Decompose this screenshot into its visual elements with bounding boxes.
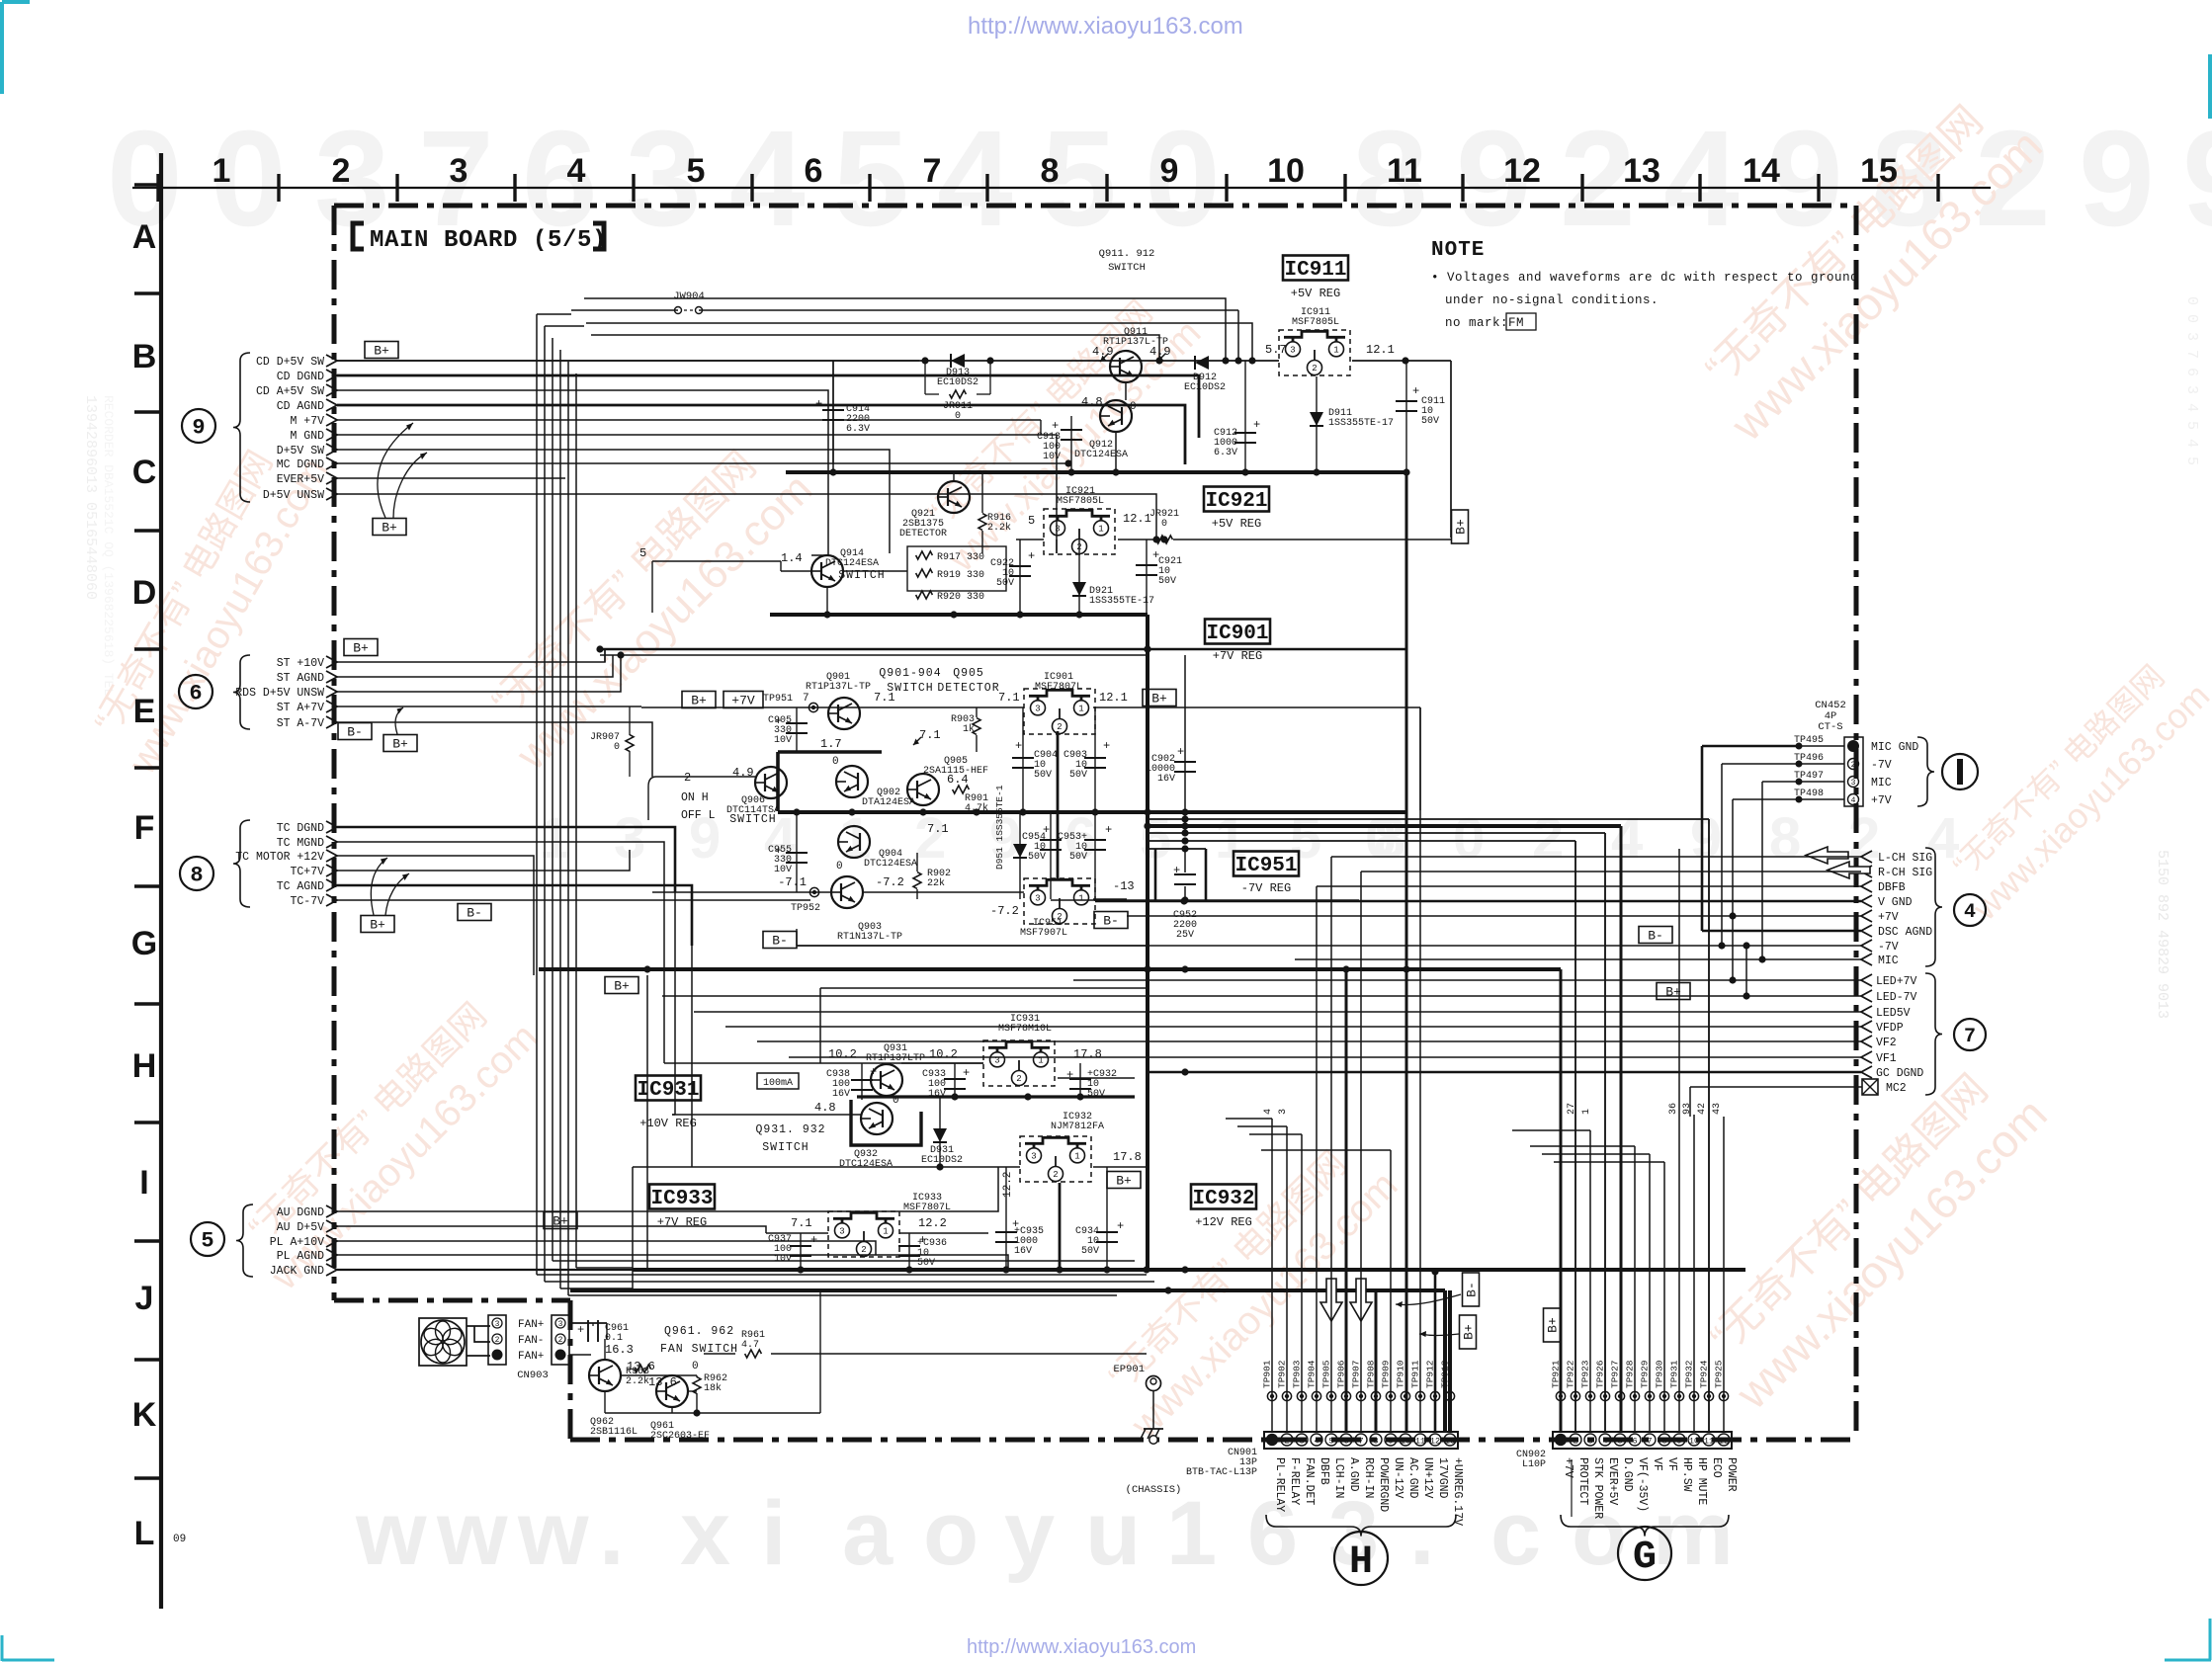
svg-text:SWITCH: SWITCH [1108, 262, 1146, 274]
svg-text:+: + [870, 1065, 877, 1079]
svg-text:DBFB: DBFB [1878, 881, 1906, 894]
svg-text:3: 3 [558, 1320, 563, 1329]
TP952 [809, 887, 818, 896]
svg-text:3: 3 [1035, 894, 1040, 904]
group9 wire M GND [337, 435, 1057, 553]
svg-text:2SB1116L: 2SB1116L [590, 1427, 638, 1438]
thick bottom bus y981 [539, 967, 1561, 971]
svg-text:J: J [135, 1280, 154, 1317]
open circle crossing border [1149, 1436, 1157, 1444]
thick vertical x1161 main [1146, 615, 1149, 1270]
svg-text:0: 0 [1130, 401, 1137, 413]
svg-text:16V: 16V [832, 1089, 850, 1100]
svg-text:2: 2 [1284, 1437, 1289, 1447]
svg-text:TC AGND: TC AGND [277, 880, 324, 893]
wire IC911 out [1352, 360, 1451, 362]
B- box group6 [338, 723, 372, 740]
svg-text:5: 5 [1328, 1437, 1333, 1447]
svg-text:u: u [1085, 1483, 1141, 1584]
svg-text:1.7: 1.7 [820, 737, 842, 751]
svg-text:50V: 50V [1028, 852, 1046, 863]
group9 wire D+5V UNSW [337, 494, 1156, 540]
svg-text:TP921: TP921 [1551, 1360, 1562, 1388]
thick switch frame Q932 [851, 1100, 921, 1145]
wire into IC931 pin3 [901, 1062, 983, 1064]
watermark pink rotated instances [77, 426, 337, 783]
svg-text:IC932: IC932 [1192, 1188, 1254, 1210]
svg-text:3: 3 [1055, 525, 1060, 535]
svg-text:STK POWER: STK POWER [1591, 1457, 1604, 1519]
PROTECT overline [1571, 1459, 1573, 1517]
svg-text:E: E [133, 693, 156, 730]
svg-text:JACK GND: JACK GND [270, 1265, 324, 1278]
svg-text:SWITCH: SWITCH [729, 813, 776, 826]
capacitor C938 [861, 1063, 863, 1100]
svg-text:6: 6 [189, 682, 202, 706]
svg-text:PROTECT: PROTECT [1576, 1457, 1589, 1505]
svg-text:5: 5 [687, 152, 706, 190]
svg-text:B-: B- [1648, 929, 1663, 944]
svg-text:2: 2 [1016, 1074, 1021, 1084]
capacitor C937 [800, 1233, 802, 1270]
svg-text:13.6: 13.6 [648, 1375, 677, 1389]
svg-text:10: 10 [1689, 1437, 1699, 1447]
svg-text:o: o [923, 1483, 978, 1584]
svg-text:12: 12 [1503, 152, 1541, 190]
svg-text:7.1: 7.1 [919, 728, 941, 742]
svg-text:10: 10 [1267, 152, 1305, 190]
B- box group8 [458, 904, 491, 921]
wire top bundle 3 [586, 323, 1252, 361]
transistor Q902 [836, 766, 868, 797]
svg-text:7: 7 [1964, 1026, 1976, 1048]
chassis ground symbol [1144, 1428, 1163, 1430]
svg-text:no mark:FM: no mark:FM [1445, 316, 1524, 330]
capacitor C961 [569, 1322, 607, 1324]
svg-text:2: 2 [558, 1336, 563, 1345]
capacitor C953 [1094, 812, 1096, 899]
transistor Q932 [861, 1103, 893, 1134]
svg-text:50V: 50V [1158, 576, 1176, 587]
svg-text:TP905: TP905 [1321, 1360, 1332, 1388]
+7V box mid [723, 692, 763, 708]
CN902 stub feeds [1512, 1129, 1590, 1131]
svg-text:2: 2 [1573, 1437, 1577, 1447]
schematic border top [334, 204, 1856, 208]
svg-text:+: + [1103, 739, 1110, 753]
svg-text:0: 0 [836, 861, 843, 873]
svg-text:Q961. 962: Q961. 962 [664, 1325, 734, 1338]
svg-text:w: w [436, 1483, 508, 1584]
svg-text:• Voltages and waveforms are d: • Voltages and waveforms are dc with res… [1431, 271, 1858, 285]
svg-text:+12V REG: +12V REG [1195, 1215, 1252, 1229]
svg-text:TP903: TP903 [1292, 1360, 1303, 1388]
svg-text:0: 0 [1161, 519, 1167, 530]
diode D931 [939, 1097, 941, 1167]
svg-text:B+: B+ [374, 344, 389, 359]
group9 wire CD AGND thick [337, 405, 1185, 464]
group7 long lines [1073, 979, 1861, 981]
svg-text:8: 8 [1373, 1437, 1378, 1447]
svg-text:MSF7805L: MSF7805L [1057, 496, 1104, 507]
svg-text:4: 4 [1964, 901, 1976, 924]
svg-text:L-CH SIG: L-CH SIG [1878, 852, 1932, 865]
svg-text:3: 3 [1278, 1109, 1289, 1115]
svg-text:0: 0 [614, 742, 620, 753]
svg-text:14: 14 [1743, 152, 1780, 190]
svg-text:0: 0 [1145, 103, 1221, 255]
svg-text:-7.2: -7.2 [876, 875, 904, 889]
svg-text:M GND: M GND [290, 430, 324, 443]
svg-text:D.GND: D.GND [1621, 1457, 1634, 1492]
CN452 corner wires [1702, 745, 1799, 748]
svg-text:+7V: +7V [1871, 794, 1892, 807]
capacitor C922 [1019, 540, 1021, 615]
svg-text:10V: 10V [1043, 452, 1061, 462]
resistor R961 [745, 1350, 762, 1358]
svg-text:4: 4 [1611, 806, 1643, 871]
regulator IC951 symbol [1024, 878, 1095, 924]
capacitor C913 [1070, 416, 1072, 472]
svg-text:B+: B+ [1454, 519, 1469, 535]
B+ box group6 [344, 639, 378, 656]
capacitor C903 [1094, 707, 1096, 812]
CN901 stub feeds [1226, 1118, 1272, 1120]
svg-text:B+: B+ [691, 694, 707, 708]
fan connector B [552, 1315, 569, 1365]
svg-text:6.3V: 6.3V [1214, 448, 1237, 458]
svg-text:TC MGND: TC MGND [277, 837, 324, 850]
fan leads [467, 1325, 490, 1327]
connector CN902 box [1553, 1432, 1732, 1449]
svg-text:12.1: 12.1 [1123, 512, 1151, 526]
svg-text:5150 892 49829 9013: 5150 892 49829 9013 [2154, 850, 2170, 1019]
svg-text:4: 4 [567, 152, 586, 190]
IC933 label box [649, 1185, 715, 1209]
svg-text:L: L [134, 1515, 155, 1552]
svg-text:9: 9 [1388, 1437, 1393, 1447]
svg-text:10.2: 10.2 [828, 1047, 857, 1061]
svg-text:+: + [1028, 549, 1035, 563]
svg-text:1: 1 [1333, 346, 1338, 356]
left ruler line [159, 153, 163, 1609]
capacitor C912 [1244, 361, 1246, 472]
group9 wire CD D+5V SW [337, 360, 919, 362]
MC2 crossed box [1862, 1079, 1878, 1095]
svg-text:F: F [134, 809, 155, 847]
svg-text:I: I [139, 1164, 148, 1202]
B+ box group5 [544, 1212, 577, 1229]
group9 wire EVER+5V [337, 477, 565, 479]
transistor Q961 [656, 1375, 688, 1407]
svg-text:RDS D+5V UNSW: RDS D+5V UNSW [235, 687, 324, 700]
hollow down arrows [1320, 1279, 1342, 1321]
capacitor C904 [1022, 707, 1024, 812]
svg-text:TP911: TP911 [1410, 1360, 1421, 1388]
svg-text:+7V: +7V [1878, 911, 1899, 924]
svg-text:PL-RELAY: PL-RELAY [1273, 1457, 1286, 1512]
svg-text:1: 1 [1581, 1109, 1592, 1115]
IC951 label box [1234, 852, 1299, 876]
svg-text:6: 6 [805, 152, 823, 190]
CN452 brace [1917, 737, 1934, 806]
group5 wires [337, 1167, 998, 1211]
svg-text:4: 4 [937, 103, 1013, 255]
svg-text:2: 2 [861, 1245, 866, 1255]
diode D913 [951, 354, 965, 368]
diode D951 vertical with rotated label [1019, 812, 1021, 899]
svg-text:MIC: MIC [1878, 955, 1899, 967]
svg-text:MAIN BOARD (5/5): MAIN BOARD (5/5) [370, 227, 607, 254]
B+ box bottom left of block [605, 977, 638, 994]
svg-text:CD DGND: CD DGND [277, 371, 324, 383]
svg-text:VF(-35V): VF(-35V) [1636, 1457, 1649, 1512]
vertical bundle bottoms [537, 1274, 1147, 1276]
CN901 pin verticals [1271, 1119, 1273, 1432]
svg-text:2SC2603-EF: 2SC2603-EF [650, 1431, 710, 1442]
wire IC921 output row [1016, 539, 1044, 540]
svg-text:H: H [1349, 1540, 1373, 1585]
group 7 labels [1861, 974, 1872, 986]
svg-text:2: 2 [1053, 1170, 1058, 1180]
svg-text:50V: 50V [1421, 416, 1439, 427]
svg-text:7: 7 [803, 693, 809, 705]
wire Q914 base [652, 560, 781, 562]
capacitor C934 [1106, 1167, 1108, 1270]
svg-text:4: 4 [1263, 1109, 1274, 1115]
B+ box on out rail [1143, 690, 1176, 706]
transistor Q912 [1100, 400, 1132, 432]
group9 wire CD DGND thick [337, 375, 1199, 438]
svg-text:1: 1 [1078, 705, 1083, 714]
svg-text:+: + [1015, 739, 1022, 753]
transistor Q906 [755, 767, 787, 798]
svg-text:TP924: TP924 [1699, 1360, 1710, 1388]
svg-text:EP901: EP901 [1113, 1364, 1145, 1375]
svg-text:1.4: 1.4 [781, 551, 803, 565]
hollow arrow R-CH [1828, 862, 1870, 878]
svg-text:AU D+5V: AU D+5V [277, 1221, 324, 1234]
svg-text:+: + [1105, 823, 1112, 837]
svg-text:36: 36 [1668, 1103, 1679, 1115]
wire y911 row [1051, 899, 1359, 901]
svg-text:0: 0 [832, 756, 839, 768]
B- box right [1639, 927, 1672, 944]
svg-text:43: 43 [1712, 1103, 1723, 1115]
svg-text:0: 0 [692, 1361, 699, 1372]
svg-text:2: 2 [1848, 806, 1880, 871]
svg-text:7.1: 7.1 [998, 691, 1020, 705]
svg-text:10V: 10V [774, 735, 792, 746]
svg-text:22k: 22k [927, 877, 945, 889]
100mA box [757, 1073, 799, 1089]
fan icon [419, 1318, 467, 1366]
svg-text:OFF L: OFF L [681, 809, 716, 822]
svg-text:+: + [810, 1233, 817, 1247]
svg-text:1: 1 [1098, 525, 1103, 535]
svg-text:D+5V SW: D+5V SW [277, 445, 324, 457]
IC932 out [1093, 1166, 1147, 1168]
svg-text:R-CH SIG: R-CH SIG [1878, 867, 1932, 879]
svg-text:NJM7812FA: NJM7812FA [1051, 1122, 1104, 1132]
circled 7 [1954, 1019, 1986, 1050]
resistor R963 [635, 1365, 651, 1372]
svg-text:3: 3 [495, 1320, 500, 1329]
schematic border bottom step [334, 1298, 570, 1303]
svg-text:FAN+: FAN+ [518, 1351, 544, 1363]
svg-text:RECORDER DBA15521C OQ (1396822: RECORDER DBA15521C OQ (13968225618) TEL [101, 395, 116, 696]
group9 wire D+5V SW [337, 450, 890, 481]
svg-text:50V: 50V [1034, 770, 1052, 781]
capacitor C936 [908, 1233, 910, 1270]
thick bus y622 [770, 613, 1148, 617]
svg-text:-7.1: -7.1 [778, 875, 807, 889]
curved arrows group8 [371, 858, 387, 915]
svg-text:ECO: ECO [1710, 1457, 1723, 1478]
top ruler line [132, 187, 1991, 189]
svg-text:4.8: 4.8 [814, 1101, 836, 1115]
svg-text:-13: -13 [1113, 879, 1135, 893]
curved arrows from B+ group9 [378, 423, 413, 518]
transistor Q931 [871, 1064, 902, 1096]
svg-text:4: 4 [1314, 1437, 1319, 1447]
diode D911 with label [1316, 376, 1318, 472]
svg-text:LED5V: LED5V [1876, 1007, 1911, 1020]
svg-text:EVER+5V: EVER+5V [277, 473, 324, 486]
svg-text:+5V REG: +5V REG [1291, 287, 1340, 300]
svg-text:17.8: 17.8 [1073, 1047, 1102, 1061]
svg-text:TP909: TP909 [1381, 1360, 1392, 1388]
svg-text:9: 9 [2079, 103, 2155, 255]
diode D921 [1078, 540, 1080, 615]
IC901 block big verticals [1184, 655, 1186, 812]
svg-text:2: 2 [684, 771, 691, 785]
group9 wire MC DGND [337, 462, 1068, 464]
svg-text:TC+7V: TC+7V [290, 866, 324, 878]
left ruler ticks [134, 183, 161, 186]
svg-text:12.1: 12.1 [1099, 691, 1128, 705]
IC911 label box [1283, 256, 1348, 281]
svg-text:-7.2: -7.2 [990, 904, 1019, 918]
group 7 brace [1925, 973, 1942, 1095]
svg-text:12.1: 12.1 [1366, 343, 1395, 357]
svg-text:TP904: TP904 [1307, 1360, 1318, 1388]
svg-text:IC911: IC911 [1284, 259, 1346, 282]
svg-text:+: + [963, 1066, 970, 1080]
svg-text:CD D+5V SW: CD D+5V SW [256, 356, 324, 369]
capacitor C935 [1005, 1167, 1007, 1270]
svg-text:1: 1 [539, 806, 570, 871]
svg-text:under no-signal conditions.: under no-signal conditions. [1445, 293, 1659, 307]
svg-text:B-: B- [1103, 914, 1119, 929]
wire rail y365 Q911/IC911 [337, 360, 1279, 362]
svg-text:RT1N137L-TP: RT1N137L-TP [837, 932, 902, 943]
capacitor C933 [954, 1063, 956, 1097]
curved arrow group6 [395, 707, 403, 734]
circled 4 [1954, 894, 1986, 926]
svg-text:1: 1 [1166, 1483, 1217, 1584]
svg-text:11: 11 [1704, 1437, 1714, 1447]
svg-text:9: 9 [2182, 103, 2212, 255]
svg-text:+: + [1177, 745, 1184, 759]
svg-text:IC901: IC901 [1206, 623, 1268, 645]
wire top bundle 4 [591, 335, 1159, 361]
svg-text:5: 5 [1028, 514, 1035, 528]
svg-text:ST A+7V: ST A+7V [277, 702, 324, 714]
group6 wires [337, 649, 605, 662]
svg-text:3: 3 [1031, 1152, 1036, 1162]
watermark faint digit row top [107, 103, 2212, 255]
IC901 label box [1205, 620, 1270, 644]
svg-text:4: 4 [1602, 1437, 1607, 1447]
B+ box group6 b [383, 735, 417, 752]
svg-text:UN-12V: UN-12V [1392, 1457, 1404, 1499]
CN902 TP dots and labels [1556, 1391, 1565, 1400]
svg-text:x: x [680, 1483, 730, 1584]
svg-text:17VGND: 17VGND [1436, 1457, 1449, 1499]
svg-text:12.2: 12.2 [918, 1216, 947, 1230]
circled 9 [182, 409, 215, 443]
B+ rotated box near CN902 [1544, 1308, 1561, 1342]
svg-text:F-RELAY: F-RELAY [1288, 1457, 1301, 1505]
group 8 brace [233, 820, 250, 907]
circled 6 [179, 675, 213, 708]
transistor Q911 [1110, 351, 1142, 382]
svg-text:10: 10 [1401, 1437, 1410, 1447]
group9 wire M +7V [337, 419, 1041, 421]
svg-text:LED-7V: LED-7V [1876, 991, 1917, 1004]
svg-text:TC DGND: TC DGND [277, 822, 324, 835]
svg-text:18k: 18k [704, 1382, 722, 1394]
svg-text:POWER: POWER [1725, 1457, 1738, 1492]
svg-text:TP926: TP926 [1595, 1360, 1606, 1388]
svg-text:TP951: TP951 [763, 694, 793, 705]
top ruler ticks [156, 174, 159, 202]
svg-text:4.8: 4.8 [1081, 395, 1103, 409]
wire lower return y957 [796, 929, 798, 946]
svg-text:12.2: 12.2 [1002, 1172, 1014, 1198]
right side wires group4 [1331, 856, 1861, 858]
svg-text:DETECTOR: DETECTOR [937, 682, 999, 695]
svg-text:DBFB: DBFB [1318, 1457, 1330, 1485]
svg-text:50V: 50V [996, 578, 1014, 589]
svg-text:G: G [131, 925, 157, 962]
svg-text:c: c [1490, 1483, 1541, 1584]
svg-text:3: 3 [1299, 1437, 1304, 1447]
C952 loop [1154, 849, 1157, 900]
svg-text:TP902: TP902 [1277, 1360, 1288, 1388]
wire x1423 thick vertical AC.GND [1405, 472, 1408, 1432]
svg-text:CT-S: CT-S [1818, 721, 1842, 733]
svg-text:RT1P137L-TP: RT1P137L-TP [806, 682, 871, 693]
svg-text:DTC124ESA: DTC124ESA [1074, 450, 1128, 460]
capacitor C914 [832, 361, 834, 464]
B- box at IC951 [1094, 912, 1128, 929]
svg-text:MC2: MC2 [1886, 1082, 1907, 1095]
svg-text:CD AGND: CD AGND [277, 400, 324, 413]
svg-text:2: 2 [1532, 806, 1564, 871]
svg-text:TP925: TP925 [1714, 1360, 1725, 1388]
svg-text:SWITCH: SWITCH [762, 1141, 808, 1154]
svg-text:-7V: -7V [1871, 759, 1892, 772]
svg-text:B-: B- [772, 934, 788, 949]
svg-text:Q911. 912: Q911. 912 [1099, 248, 1155, 260]
svg-text:7: 7 [1647, 1437, 1652, 1447]
svg-text:+: + [1412, 384, 1419, 398]
capacitor C902 [1174, 761, 1196, 763]
transistor Q921 [938, 481, 970, 513]
svg-text:5: 5 [201, 1229, 213, 1254]
